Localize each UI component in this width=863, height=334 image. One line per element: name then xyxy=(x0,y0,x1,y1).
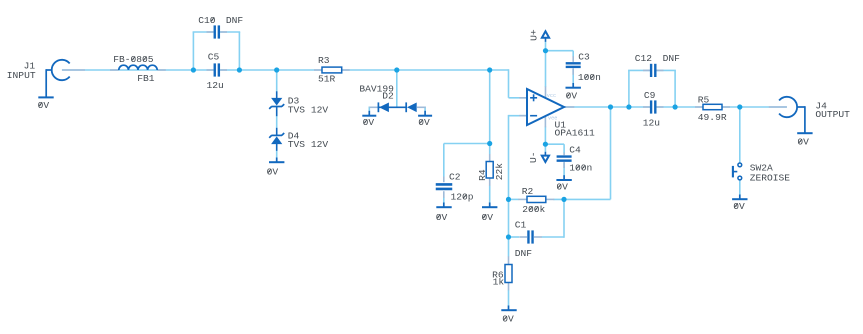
node: output/feedback junction xyxy=(608,104,613,109)
svg-text:DNF: DNF xyxy=(663,53,681,64)
svg-text:R2: R2 xyxy=(522,186,534,197)
resistor R4 xyxy=(486,162,493,179)
wire: SW2A bottom to ground xyxy=(739,180,741,195)
wire: C5 right plate to R3 xyxy=(220,69,322,71)
pin: J1 center pin xyxy=(62,69,85,71)
connector J4 xyxy=(779,97,797,117)
svg-text:R4: R4 xyxy=(477,169,488,181)
wire: C3 top vertical xyxy=(572,51,574,57)
wire: inverting net vertical xyxy=(508,115,510,237)
wire: C10 parallel branch left vertical xyxy=(192,32,194,70)
svg-text:C9: C9 xyxy=(644,90,656,101)
wire: C10 branch top right xyxy=(220,31,240,33)
wire: D3 branch down from main net xyxy=(276,70,278,92)
pin: C5 left xyxy=(207,69,214,71)
ground 0V at R6 xyxy=(508,306,510,311)
svg-text:C1: C1 xyxy=(515,220,527,231)
node: C1/R6 junction xyxy=(506,234,511,239)
svg-text:C12: C12 xyxy=(635,53,653,64)
pin: C1 left xyxy=(520,236,528,238)
wire: R6 top xyxy=(508,237,510,257)
wire: branch to C2 horizontal xyxy=(444,143,490,145)
power symbol V- arrow xyxy=(542,156,549,162)
pin: C2 top xyxy=(443,177,445,183)
pin: C5 right xyxy=(220,69,227,71)
wire: D2 left end down xyxy=(368,107,370,112)
pin: R2 right xyxy=(546,198,555,200)
node: C2 branch junction xyxy=(487,141,492,146)
pin: op-amp V- xyxy=(544,117,546,128)
svg-text:ZEROISE: ZEROISE xyxy=(750,173,791,184)
ground 0V at D2 right xyxy=(424,111,426,116)
capacitor C2 xyxy=(436,183,453,186)
ground 0V at J1 xyxy=(45,93,47,97)
diode D4 TVS (cathode up) xyxy=(271,134,282,136)
svg-text:INPUT: INPUT xyxy=(7,70,36,81)
svg-text:C3: C3 xyxy=(578,52,590,63)
pin: R4 bottom xyxy=(489,178,491,186)
wire: C12 branch left vertical xyxy=(628,70,630,107)
wire: inverting net to C1 xyxy=(509,236,520,238)
svg-text:FB1: FB1 xyxy=(137,73,155,84)
pin: C3 top xyxy=(572,56,574,62)
op-amp + marker xyxy=(530,97,537,99)
svg-text:100n: 100n xyxy=(569,163,592,174)
pin: R6 bottom xyxy=(508,283,510,291)
wire: V- node to C4 xyxy=(545,143,564,145)
wire: R4 to ground xyxy=(489,186,491,204)
svg-text:22k: 22k xyxy=(494,163,505,181)
svg-text:51R: 51R xyxy=(318,74,336,85)
capacitor C9 xyxy=(650,100,652,113)
capacitor C5 xyxy=(214,63,216,76)
svg-text:100n: 100n xyxy=(578,72,601,83)
pin: FB1 left xyxy=(110,69,119,71)
wire: C4 bottom to ground xyxy=(563,163,565,176)
wire: C12 branch right vertical xyxy=(674,70,676,107)
pin: FB1 right xyxy=(157,69,166,71)
op-amp - marker xyxy=(530,115,537,117)
ground 0V at D2 left xyxy=(368,111,370,116)
pin: C3 bottom xyxy=(572,68,574,75)
wire: feedback vertical up to output xyxy=(610,107,612,199)
svg-text:FB-0805: FB-0805 xyxy=(113,54,154,65)
pin: C12 right xyxy=(657,69,664,71)
pin: R4 top xyxy=(489,154,491,162)
node: R2/feedback junction xyxy=(561,197,566,202)
svg-text:vee: vee xyxy=(548,115,557,121)
pin: C4 bottom xyxy=(563,162,565,168)
inductor FB1 xyxy=(119,65,157,70)
svg-text:D2: D2 xyxy=(382,91,394,102)
diode D3 TVS (cathode down) xyxy=(271,98,282,106)
wire: J1 to C5 left plate (main input net) xyxy=(62,69,214,71)
pin: R6 top xyxy=(508,256,510,264)
wire: C1 right up to R2 right node xyxy=(563,199,565,237)
wire: R2 right to feedback corner xyxy=(554,198,611,200)
resistor R2 xyxy=(527,196,546,202)
node: V- junction xyxy=(543,142,548,147)
svg-text:U+: U+ xyxy=(528,29,539,41)
svg-text:TVS 12V: TVS 12V xyxy=(288,139,329,150)
pin: C10 left xyxy=(207,31,214,33)
svg-text:12u: 12u xyxy=(207,80,224,91)
pin: C2 bottom xyxy=(443,191,445,198)
switch SW2A pushbutton xyxy=(738,163,742,167)
capacitor C10 xyxy=(214,25,216,38)
svg-text:C4: C4 xyxy=(569,145,581,156)
wire: C4 top vertical xyxy=(563,144,565,153)
node: C10/C5 right junction xyxy=(237,67,242,72)
ground 0V at C2 xyxy=(443,203,445,208)
svg-text:R5: R5 xyxy=(698,94,710,105)
ground 0V at R4 xyxy=(489,203,491,208)
svg-text:OPA1611: OPA1611 xyxy=(555,128,596,139)
node: D3 branch junction xyxy=(274,67,279,72)
ground 0V at C4 xyxy=(563,175,565,180)
svg-text:TVS 12V: TVS 12V xyxy=(288,104,329,115)
svg-text:C10: C10 xyxy=(198,15,216,26)
ground 0V below D4 xyxy=(276,158,278,163)
wire: R5 to J4 xyxy=(722,106,787,108)
pin: J4 center pin xyxy=(769,106,787,108)
pin: op-amp + input xyxy=(519,97,527,99)
pin: op-amp V+ xyxy=(545,87,547,98)
node: C12 right junction xyxy=(673,104,678,109)
svg-text:DNF: DNF xyxy=(515,248,533,259)
svg-text:12u: 12u xyxy=(643,117,660,128)
wire: between D3 and D4 xyxy=(276,116,278,128)
resistor R3 xyxy=(322,67,342,73)
pin: op-amp output xyxy=(565,106,575,108)
capacitor C1 xyxy=(527,230,529,243)
node: V+ junction xyxy=(543,48,548,53)
node: C12 left junction xyxy=(626,104,631,109)
svg-text:U-: U- xyxy=(528,151,539,163)
wire: C9 right to R5 xyxy=(656,106,703,108)
pin: C4 top xyxy=(563,153,565,156)
wire: D4 to ground xyxy=(276,151,278,159)
pin: D2 right xyxy=(417,106,426,108)
capacitor C4 xyxy=(557,155,572,157)
pin: op-amp - input xyxy=(519,115,527,117)
svg-text:C5: C5 xyxy=(208,52,220,63)
node: SW2A branch junction xyxy=(737,104,742,109)
resistor R6 xyxy=(505,265,512,283)
svg-text:120p: 120p xyxy=(451,192,474,203)
connector J1 xyxy=(52,60,70,80)
pin: C10 right xyxy=(220,31,227,33)
wire: V+ node to C3 xyxy=(546,50,574,52)
wire: R6 bottom to ground xyxy=(508,290,510,306)
pin: C12 left xyxy=(643,69,650,71)
pin: C1 right xyxy=(534,236,542,238)
pin: R3 left xyxy=(314,69,322,71)
node: C10/C5 left junction xyxy=(191,67,196,72)
capacitor C3 xyxy=(566,62,581,64)
wire: corner down to + input level xyxy=(508,69,510,98)
wire: R3 to op-amp + input corner xyxy=(342,69,509,71)
wire: C12 branch top left xyxy=(628,69,650,71)
node: inverting/R2 junction xyxy=(506,197,511,202)
resistor R5 xyxy=(703,104,722,109)
wire: C2 to ground xyxy=(443,198,445,204)
wire: SW2A branch down xyxy=(739,107,741,163)
dual diode D2 BAV199 xyxy=(379,106,407,108)
ground 0V at C3 xyxy=(572,83,574,88)
capacitor C12 xyxy=(650,64,652,77)
pin: C9 left xyxy=(643,106,650,108)
wire: C10 branch top left xyxy=(193,31,214,33)
svg-text:C2: C2 xyxy=(449,171,461,182)
power symbol V+ arrow xyxy=(542,31,549,37)
svg-text:200k: 200k xyxy=(522,204,545,215)
op-amp U1 triangle xyxy=(527,89,564,125)
wire: op-amp output net xyxy=(565,106,651,108)
svg-text:R3: R3 xyxy=(318,55,330,66)
svg-text:vcc: vcc xyxy=(547,93,556,99)
wire: D2 right end down xyxy=(424,107,426,112)
pin: C9 right xyxy=(657,106,664,108)
ground 0V at SW2A xyxy=(739,195,741,200)
svg-text:OUTPUT: OUTPUT xyxy=(815,109,850,120)
wire: C12 branch top right xyxy=(656,69,676,71)
wire: D2 branch vertical xyxy=(396,70,398,107)
node: D2 branch junction xyxy=(394,67,399,72)
wire: C10 branch right vertical xyxy=(238,32,240,70)
svg-text:DNF: DNF xyxy=(226,15,244,26)
wire: R4/C2 branch vertical from main net xyxy=(489,70,491,154)
wire: - input from feedback net xyxy=(509,115,528,117)
wire: V- vertical xyxy=(544,127,546,153)
ground 0V at J4 xyxy=(797,132,812,134)
pin: R2 left xyxy=(518,198,527,200)
wire: C1 right side xyxy=(542,236,565,238)
wire: C2 vertical upper xyxy=(443,144,445,177)
pin: R3 right xyxy=(342,69,350,71)
svg-text:1k: 1k xyxy=(493,277,505,288)
pin: R5 left xyxy=(695,106,703,108)
wire: V+ vertical xyxy=(545,42,547,88)
node: R4 branch junction xyxy=(487,67,492,72)
wire: into + input xyxy=(509,97,528,99)
wire: C3 bottom to ground xyxy=(572,69,574,84)
svg-text:49.9R: 49.9R xyxy=(698,112,727,123)
pin: D2 left xyxy=(369,106,378,108)
pin: R5 right xyxy=(722,106,730,108)
wire: inverting net to R2 xyxy=(509,198,519,200)
